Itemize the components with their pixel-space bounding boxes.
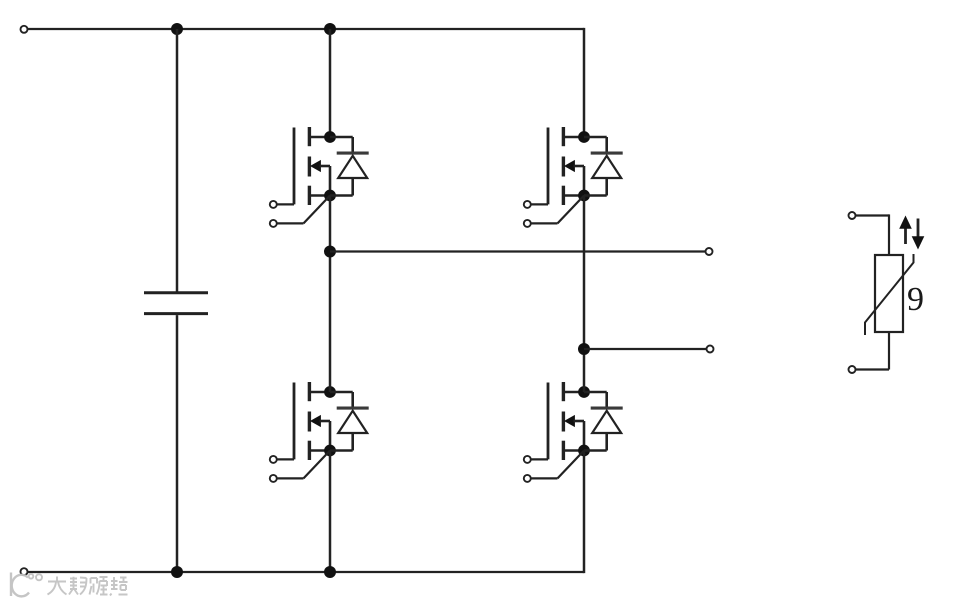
node Q1 source	[324, 190, 336, 202]
terminal Q2 gate	[524, 201, 548, 208]
wire left leg Q1 source to Q3 drain	[329, 196, 332, 393]
terminal thermistor bottom	[849, 366, 856, 373]
wire left leg Q3 source to bottom rail	[329, 451, 332, 573]
wire thermistor top lead	[856, 214, 890, 255]
thermistor bidirectional arrows	[899, 216, 924, 250]
watermark logo and text	[11, 573, 128, 597]
terminal Q4 gate	[524, 456, 548, 463]
wire capacitor bottom lead	[176, 315, 179, 572]
thermistor temperature label ϑ	[907, 281, 924, 318]
node top rail / left leg junction	[324, 23, 336, 35]
node Q2 source	[578, 190, 590, 202]
capacitor C1	[144, 293, 208, 314]
node Q3 source	[324, 445, 336, 457]
terminal right phase output	[707, 346, 714, 353]
terminal thermistor top	[849, 212, 856, 219]
node left phase output	[324, 246, 336, 258]
thermistor RT1 body	[875, 255, 903, 332]
wire left phase output	[330, 250, 706, 252]
wire capacitor top lead	[176, 29, 179, 292]
terminal Q1 gate	[270, 201, 294, 208]
transistor Q3 (N-MOSFET)	[294, 382, 330, 460]
body diode D2	[584, 137, 623, 196]
wire right leg Q2 source to Q4 drain	[583, 196, 586, 393]
body diode D3	[330, 392, 369, 451]
body diode D1	[330, 137, 369, 196]
svg-text:9: 9	[907, 281, 924, 318]
terminal DC+ input	[21, 26, 28, 33]
terminal Q3 gate	[270, 456, 294, 463]
transistor Q1 (N-MOSFET)	[294, 127, 330, 205]
wire left leg to Q1 drain	[329, 29, 332, 137]
wire right leg to Q2 drain	[583, 28, 586, 137]
terminal DC- input	[21, 568, 28, 575]
node Q4 drain	[578, 386, 590, 398]
transistor Q4 (N-MOSFET)	[548, 382, 584, 460]
wire top rail DC+	[28, 28, 585, 30]
terminal Q4 auxiliary source	[524, 451, 584, 482]
terminal Q1 auxiliary source	[270, 196, 330, 227]
node bottom rail / left leg junction	[324, 566, 336, 578]
node Q3 drain	[324, 386, 336, 398]
wire thermistor bottom lead	[856, 332, 890, 369]
terminal Q2 auxiliary source	[524, 196, 584, 227]
node Q1 drain	[324, 131, 336, 143]
node Q4 source	[578, 445, 590, 457]
node Q2 drain	[578, 131, 590, 143]
terminal left phase output	[706, 248, 713, 255]
body diode D4	[584, 392, 623, 451]
wire bottom rail DC-	[28, 571, 585, 573]
transistor Q2 (N-MOSFET)	[548, 127, 584, 205]
node right phase output	[578, 343, 590, 355]
terminal Q3 auxiliary source	[270, 451, 330, 482]
wire right phase output	[584, 348, 707, 350]
node top rail / capacitor junction	[171, 23, 183, 35]
thermistor RT1 diagonal stroke	[865, 254, 914, 335]
wire right leg Q4 source to bottom rail	[583, 451, 586, 574]
node bottom rail / capacitor junction	[171, 566, 183, 578]
